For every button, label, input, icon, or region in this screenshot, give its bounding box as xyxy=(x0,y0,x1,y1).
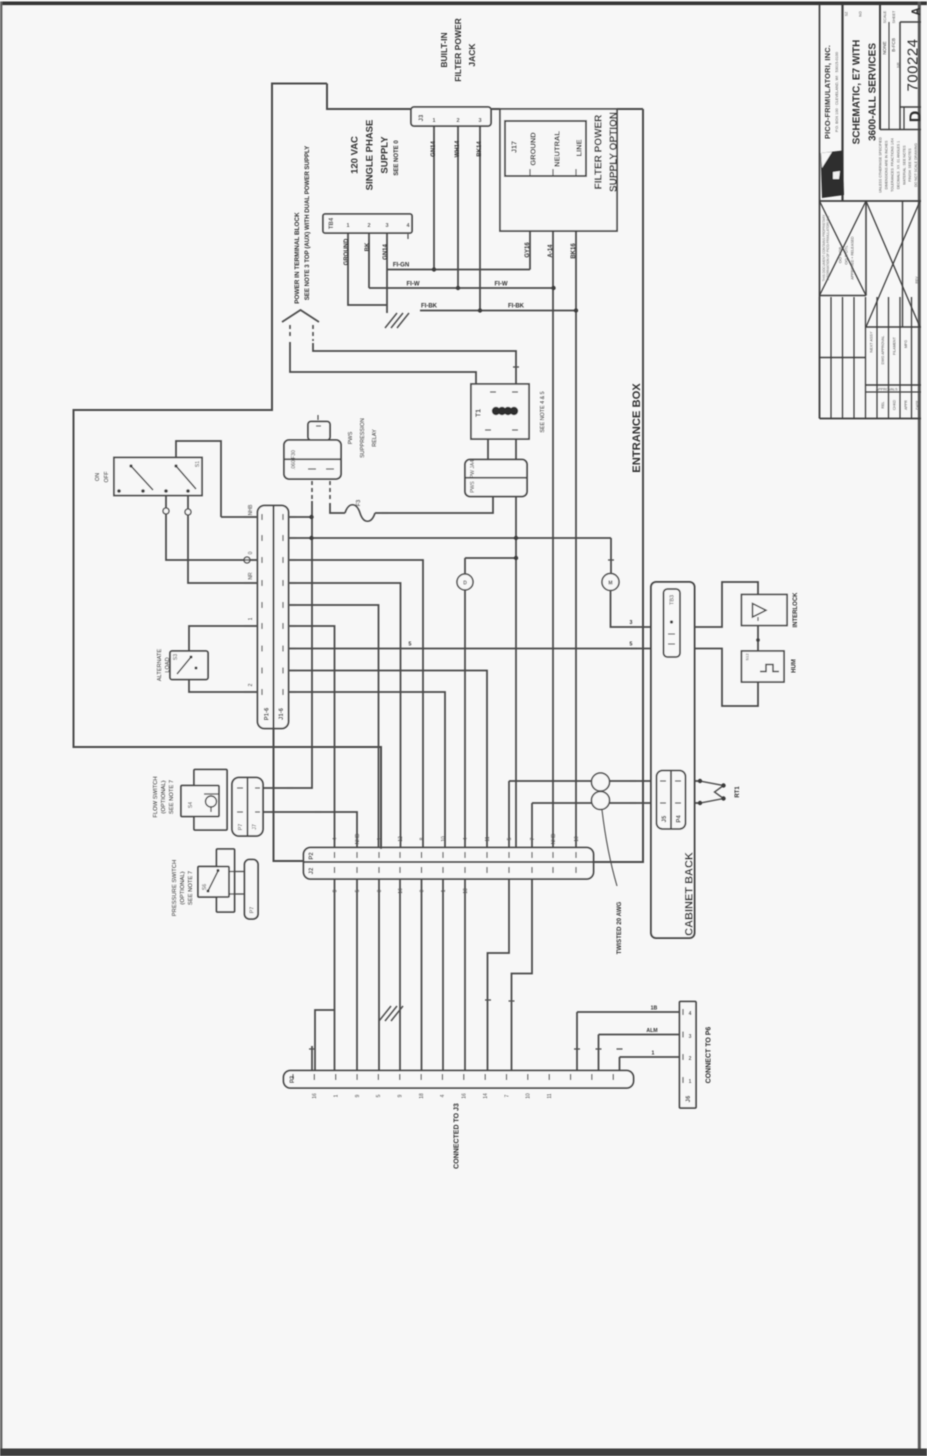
svg-text:FILTER POWER: FILTER POWER xyxy=(594,114,605,190)
svg-text:P.O. BOX 100 · CLEVELAND, WI ·: P.O. BOX 100 · CLEVELAND, WI · 53015-010… xyxy=(835,52,839,132)
svg-text:12: 12 xyxy=(398,836,404,842)
svg-text:TWISTED 20 AWG: TWISTED 20 AWG xyxy=(616,901,623,954)
svg-text:SEE NOTE 7: SEE NOTE 7 xyxy=(169,780,175,814)
svg-text:11: 11 xyxy=(547,1093,553,1098)
svg-text:SUPPLY OPTION: SUPPLY OPTION xyxy=(609,112,620,192)
svg-text:0: 0 xyxy=(377,889,383,892)
svg-text:1: 1 xyxy=(432,118,435,124)
svg-text:OO R OTL: OO R OTL xyxy=(843,245,848,265)
svg-text:5: 5 xyxy=(409,642,412,648)
svg-text:ALM: ALM xyxy=(646,1028,657,1034)
svg-text:LINE: LINE xyxy=(575,139,584,156)
svg-text:NR: NR xyxy=(248,572,254,580)
svg-text:TOLERANCES: FRACTIONS 1/64: TOLERANCES: FRACTIONS 1/64 xyxy=(891,138,895,192)
svg-text:3: 3 xyxy=(478,118,481,124)
svg-text:0: 0 xyxy=(419,889,425,892)
svg-text:2: 2 xyxy=(689,1056,692,1062)
svg-text:P3: P3 xyxy=(290,1075,296,1083)
svg-text:3600-ALL SERVICES: 3600-ALL SERVICES xyxy=(868,43,879,141)
svg-text:4: 4 xyxy=(463,837,469,840)
svg-text:J6: J6 xyxy=(686,1095,692,1102)
svg-text:BK16: BK16 xyxy=(571,243,577,259)
svg-text:CONNECT TO P6: CONNECT TO P6 xyxy=(705,1027,712,1084)
svg-text:INFORMATION OF PICO-FRIMULATOR: INFORMATION OF PICO-FRIMULATORI INC xyxy=(826,215,830,281)
svg-text:8: 8 xyxy=(419,837,425,840)
svg-text:MATERIAL: SEE NOTES: MATERIAL: SEE NOTES xyxy=(902,145,906,185)
svg-text:120 VAC: 120 VAC xyxy=(349,136,360,174)
svg-text:FI-GN: FI-GN xyxy=(393,263,409,269)
svg-text:J3: J3 xyxy=(419,114,425,121)
svg-text:FI-W: FI-W xyxy=(407,282,420,288)
svg-text:5: 5 xyxy=(376,1094,382,1097)
svg-text:3: 3 xyxy=(630,620,633,626)
svg-text:S12: S12 xyxy=(744,653,749,661)
svg-text:ALTERNATE: ALTERNATE xyxy=(157,649,163,681)
svg-text:ENTRANCE BOX: ENTRANCE BOX xyxy=(631,383,643,473)
svg-text:OFF: OFF xyxy=(104,471,110,483)
svg-text:FINISH: SEE NOTES: FINISH: SEE NOTES xyxy=(908,148,912,182)
svg-text:16: 16 xyxy=(398,888,404,894)
svg-text:SZ: SZ xyxy=(844,11,848,16)
svg-text:J7: J7 xyxy=(252,824,258,830)
svg-text:SEE NOTE 3 TOP (AUX) WITH DUAL: SEE NOTE 3 TOP (AUX) WITH DUAL POWER SUP… xyxy=(304,146,311,301)
svg-text:DO NOT SCALE DRAWING: DO NOT SCALE DRAWING xyxy=(914,143,918,187)
svg-text:2: 2 xyxy=(248,683,254,686)
svg-text:TB4: TB4 xyxy=(329,217,335,229)
svg-text:4: 4 xyxy=(332,837,338,840)
svg-text:SEE NOTE 4 & 5: SEE NOTE 4 & 5 xyxy=(540,391,546,432)
svg-text:16: 16 xyxy=(312,1093,318,1099)
svg-text:SCHEMATIC, E7 WITH: SCHEMATIC, E7 WITH xyxy=(852,40,863,145)
svg-text:10: 10 xyxy=(526,1093,532,1099)
svg-text:D: D xyxy=(463,581,467,587)
svg-text:INTERLOCK: INTERLOCK xyxy=(793,592,799,628)
svg-text:FLOW SWITCH: FLOW SWITCH xyxy=(153,776,159,817)
svg-text:LOAD: LOAD xyxy=(165,657,171,672)
svg-text:OO 4 OB: OO 4 OB xyxy=(837,246,842,263)
svg-text:NEXT ASSY: NEXT ASSY xyxy=(869,331,873,353)
svg-text:NO: NO xyxy=(858,11,862,17)
svg-text:(OPTIONAL): (OPTIONAL) xyxy=(180,871,186,904)
svg-text:FI-W: FI-W xyxy=(495,282,508,288)
svg-text:CABINET BACK: CABINET BACK xyxy=(683,852,695,936)
svg-text:D: D xyxy=(908,111,925,123)
svg-text:1: 1 xyxy=(689,1079,692,1085)
svg-text:FILAMENT: FILAMENT xyxy=(892,336,896,355)
svg-text:M: M xyxy=(608,581,612,587)
svg-text:J1-6: J1-6 xyxy=(279,707,285,720)
svg-text:WH14: WH14 xyxy=(455,140,461,157)
svg-text:PW JA4: PW JA4 xyxy=(470,460,476,478)
svg-text:S3: S3 xyxy=(173,654,179,660)
svg-text:UNLESS OTHERWISE SPECIFIED: UNLESS OTHERWISE SPECIFIED xyxy=(879,137,883,193)
svg-text:1: 1 xyxy=(333,1094,339,1097)
svg-text:2: 2 xyxy=(456,118,459,124)
svg-text:CONNECTED TO J3: CONNECTED TO J3 xyxy=(453,1103,460,1169)
svg-text:2: 2 xyxy=(367,223,370,229)
svg-text:BUILT-IN: BUILT-IN xyxy=(439,32,449,67)
svg-text:5: 5 xyxy=(355,889,361,892)
svg-text:PICO-FRIMULATORI, INC.: PICO-FRIMULATORI, INC. xyxy=(823,45,832,139)
svg-text:4: 4 xyxy=(440,1094,446,1097)
svg-text:NEUTRAL: NEUTRAL xyxy=(553,131,562,167)
svg-text:.060/F30: .060/F30 xyxy=(291,450,297,470)
svg-text:3: 3 xyxy=(689,1034,692,1040)
svg-text:5: 5 xyxy=(507,837,513,840)
svg-text:7: 7 xyxy=(530,837,536,840)
svg-text:S1: S1 xyxy=(195,461,201,467)
svg-text:S6: S6 xyxy=(202,884,208,890)
svg-text:9: 9 xyxy=(355,1094,361,1097)
svg-text:NR: NR xyxy=(896,62,900,68)
svg-text:10: 10 xyxy=(441,836,447,842)
svg-text:GN14: GN14 xyxy=(431,141,437,157)
svg-text:11: 11 xyxy=(485,836,491,841)
svg-text:GY16: GY16 xyxy=(525,242,531,258)
svg-text:MFG: MFG xyxy=(904,340,908,348)
svg-text:SUPPRESSION: SUPPRESSION xyxy=(360,418,366,458)
svg-text:J17: J17 xyxy=(511,141,518,153)
svg-text:1: 1 xyxy=(377,837,383,840)
svg-text:HUM: HUM xyxy=(792,659,798,673)
svg-text:ON: ON xyxy=(95,473,101,481)
svg-text:P4: P4 xyxy=(677,815,683,823)
svg-text:GROUND: GROUND xyxy=(529,132,538,166)
svg-text:DIMENSIONS ARE IN INCHES: DIMENSIONS ARE IN INCHES xyxy=(885,140,889,189)
svg-text:BK: BK xyxy=(365,242,371,251)
svg-text:18: 18 xyxy=(463,888,469,894)
svg-text:POWER IN TERMINAL BLOCK: POWER IN TERMINAL BLOCK xyxy=(294,212,301,304)
svg-text:RELAY: RELAY xyxy=(372,429,378,447)
svg-text:P2: P2 xyxy=(309,852,315,860)
svg-text:P1-6: P1-6 xyxy=(265,707,271,720)
svg-text:DWG APPROVAL: DWG APPROVAL xyxy=(881,336,885,365)
svg-text:SEE NOTE 7: SEE NOTE 7 xyxy=(188,871,194,905)
svg-text:16: 16 xyxy=(462,1093,468,1099)
svg-text:CHKD: CHKD xyxy=(892,400,896,411)
svg-text:SCALE: SCALE xyxy=(883,10,887,23)
svg-text:9: 9 xyxy=(398,1094,404,1097)
svg-text:3: 3 xyxy=(385,223,388,229)
svg-text:APPR: APPR xyxy=(904,400,908,410)
svg-text:PWS: PWS xyxy=(470,481,476,493)
svg-text:5: 5 xyxy=(630,642,633,648)
svg-text:DATE: DATE xyxy=(915,400,919,410)
svg-text:14: 14 xyxy=(483,1093,489,1099)
svg-text:1: 1 xyxy=(652,1051,655,1057)
svg-text:B-FCB: B-FCB xyxy=(891,38,896,52)
svg-text:FI-BK: FI-BK xyxy=(421,304,438,310)
svg-text:1: 1 xyxy=(441,889,447,892)
svg-text:APPROVED + RELEASED: APPROVED + RELEASED xyxy=(850,236,854,280)
svg-text:0: 0 xyxy=(248,551,254,554)
svg-text:A-14: A-14 xyxy=(548,244,554,258)
svg-text:NONE: NONE xyxy=(882,41,887,54)
svg-text:FI-BK: FI-BK xyxy=(508,304,525,310)
svg-text:REV: REV xyxy=(915,276,919,284)
svg-text:BK14: BK14 xyxy=(477,141,483,157)
svg-text:10: 10 xyxy=(574,836,580,842)
svg-text:SHEET: SHEET xyxy=(892,10,896,23)
svg-text:DECIMALS .XX .01 ANGLES 1: DECIMALS .XX .01 ANGLES 1 xyxy=(896,141,900,189)
svg-text:4: 4 xyxy=(689,1011,692,1017)
svg-text:RT1: RT1 xyxy=(735,786,741,798)
svg-text:1: 1 xyxy=(346,223,349,229)
svg-text:F3: F3 xyxy=(356,500,362,506)
svg-text:18: 18 xyxy=(419,1093,425,1099)
svg-text:JACK: JACK xyxy=(467,43,477,67)
svg-text:GN14: GN14 xyxy=(383,244,389,260)
svg-text:PWS: PWS xyxy=(348,431,354,444)
svg-text:A: A xyxy=(911,7,923,15)
svg-text:9: 9 xyxy=(332,889,338,892)
svg-text:FILTER POWER: FILTER POWER xyxy=(453,18,463,82)
svg-text:NHB: NHB xyxy=(248,504,254,515)
svg-text:REL: REL xyxy=(881,402,885,409)
svg-text:SUPPLY: SUPPLY xyxy=(379,136,390,174)
svg-text:SEE NOTE 0: SEE NOTE 0 xyxy=(394,140,400,176)
svg-text:7: 7 xyxy=(504,1094,510,1097)
svg-text:(OPTIONAL): (OPTIONAL) xyxy=(161,780,167,813)
svg-text:PRESSURE SWITCH: PRESSURE SWITCH xyxy=(172,860,178,916)
svg-text:TB3: TB3 xyxy=(669,595,675,605)
svg-text:P7: P7 xyxy=(238,824,244,831)
svg-text:APPROVALS: APPROVALS xyxy=(876,388,898,392)
svg-text:NHB: NHB xyxy=(551,833,557,844)
svg-text:700224: 700224 xyxy=(904,38,921,91)
svg-text:SINGLE PHASE: SINGLE PHASE xyxy=(364,120,375,191)
svg-text:P7: P7 xyxy=(249,907,255,914)
svg-text:S4: S4 xyxy=(188,802,194,808)
svg-text:NHB: NHB xyxy=(355,833,361,844)
svg-text:GROUND: GROUND xyxy=(344,238,350,265)
svg-text:1B: 1B xyxy=(651,1006,658,1012)
svg-text:J5: J5 xyxy=(662,815,668,822)
svg-text:1: 1 xyxy=(248,617,254,620)
svg-text:J2: J2 xyxy=(309,867,315,874)
svg-text:T1: T1 xyxy=(475,409,482,417)
